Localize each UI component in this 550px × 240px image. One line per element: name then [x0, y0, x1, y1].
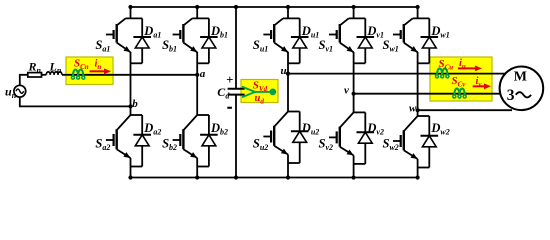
label S_Cn [74, 58, 89, 72]
wire phase u to motor [286, 72, 505, 76]
wire leg w midsection [417, 52, 419, 116]
label S_Cu [439, 58, 454, 72]
label D_u1 [301, 24, 319, 40]
wire leg w top-cell bottom bar [418, 62, 430, 64]
node b [128, 98, 138, 110]
svg-text:u: u [281, 65, 287, 77]
label + (dc link) [226, 73, 233, 87]
label i_n [95, 59, 102, 72]
igbt S_v1 [329, 18, 354, 52]
label S_v2 [319, 137, 334, 153]
wire leg v top bar [349, 17, 366, 19]
wire top dc bus [131, 6, 418, 8]
wire leg v midsection [353, 52, 355, 112]
label S_b1 [162, 38, 177, 54]
wire leg w bottom stub [416, 159, 420, 180]
igbt S_w2 [393, 116, 418, 159]
igbt S_u1 [263, 18, 288, 52]
label D_b1 [210, 24, 228, 40]
diode D_b1 [200, 18, 218, 63]
wire leg w top stub [416, 5, 420, 19]
label D_b2 [210, 121, 228, 137]
label S_u2 [253, 137, 268, 153]
sensor box S_Cn (current sensor highlight) [66, 57, 113, 85]
label u_n [5, 85, 17, 101]
svg-text:3: 3 [507, 87, 515, 104]
igbt S_b2 [173, 115, 198, 158]
wire leg a bottom-cell bottom bar [131, 166, 143, 168]
sensor box S_Vd (dc voltage sensor highlight) [241, 80, 278, 103]
label S_Vd [253, 80, 268, 94]
wire leg b bottom-cell bottom bar [197, 166, 209, 168]
wire capacitor bottom stub [234, 95, 238, 179]
igbt S_a1 [106, 18, 131, 52]
node a [195, 68, 206, 80]
arrow i_n [90, 68, 112, 74]
node u label [281, 65, 287, 77]
wire leg v bottom-cell top bar [354, 111, 366, 113]
wire leg v bottom-cell bottom bar [354, 163, 366, 165]
wire leg a bottom-cell top bar [131, 114, 143, 116]
wire leg b top bar [192, 17, 209, 19]
label D_v1 [366, 24, 384, 40]
wire leg v top-cell bottom bar [354, 62, 366, 64]
wire R_n to L_n [42, 74, 47, 76]
wire leg b top stub [195, 5, 199, 19]
diode D_w2 [421, 116, 439, 168]
diode D_a1 [133, 18, 151, 63]
svg-text:+: + [226, 73, 233, 87]
diode D_v2 [357, 112, 375, 163]
diode D_b2 [200, 115, 218, 167]
label D_v2 [366, 121, 384, 137]
wire leg u bottom-cell bottom bar [288, 162, 300, 164]
ac source u_n [14, 85, 26, 97]
label D_u2 [301, 121, 319, 137]
igbt S_a2 [106, 115, 131, 158]
label D_w2 [430, 121, 449, 137]
label u_d [255, 93, 265, 106]
label D_a2 [143, 121, 161, 137]
svg-text:b: b [132, 98, 138, 110]
arrow i_v [473, 83, 491, 89]
arrow i_u [458, 66, 482, 72]
wire L_n to node a [62, 74, 197, 76]
wire leg b bottom-cell top bar [197, 114, 209, 116]
wire source bottom lead [19, 97, 131, 106]
svg-text:M: M [514, 70, 527, 85]
diode D_u2 [291, 112, 309, 164]
node v label [344, 85, 349, 97]
wire leg w top bar [413, 17, 430, 19]
wire phase v to motor [352, 92, 501, 96]
label i_v [476, 76, 483, 89]
label - (dc link) [227, 107, 232, 109]
motor M 3~ [500, 67, 544, 111]
svg-text:a: a [200, 68, 206, 80]
diode D_v1 [357, 18, 375, 63]
label i_u [459, 58, 466, 71]
wire capacitor top stub [234, 5, 238, 88]
wire leg b bottom stub [195, 158, 199, 180]
wire leg w bottom-cell bottom bar [418, 167, 430, 169]
svg-text:w: w [409, 103, 417, 115]
resistor R_n [28, 73, 42, 77]
label R_n [28, 59, 42, 75]
wire leg w bottom-cell top bar [418, 115, 430, 117]
current sensor coil S_Cu [436, 68, 449, 77]
igbt S_w1 [393, 18, 418, 52]
wire leg v bottom stub [352, 155, 356, 179]
wire leg a top-cell bottom bar [131, 62, 143, 64]
label S_w1 [383, 38, 399, 54]
current sensor coil S_Cn [71, 70, 84, 79]
igbt S_v2 [329, 112, 354, 155]
wire phase w to motor [416, 108, 513, 112]
label D_w1 [430, 24, 449, 40]
wire leg a top stub [128, 5, 132, 19]
voltage sensor S_Vd probe [242, 87, 276, 98]
wire leg u top stub [286, 5, 290, 19]
sensor box S_Cu S_Cv (phase current sensors highlight) [430, 57, 492, 101]
wire leg v top stub [352, 5, 356, 19]
wire source top lead [19, 75, 28, 86]
wire leg u top-cell bottom bar [288, 62, 300, 64]
wire leg u bottom-cell top bar [288, 111, 300, 113]
diode D_u1 [291, 18, 309, 63]
label S_b2 [162, 137, 177, 153]
label S_a1 [95, 38, 110, 54]
wire leg u bottom stub [286, 155, 290, 180]
wire leg u midsection [287, 52, 289, 112]
label C_d [217, 85, 230, 101]
wire leg u top bar [283, 17, 300, 19]
igbt S_b1 [173, 18, 198, 52]
label S_Cv [452, 75, 467, 89]
inductor L_n [46, 72, 62, 75]
wire leg b midsection [196, 52, 198, 115]
igbt S_u2 [263, 112, 288, 155]
current sensor coil S_Cv [453, 89, 466, 98]
label S_v1 [319, 38, 334, 54]
capacitor C_d [228, 89, 245, 95]
wire leg a midsection [130, 52, 132, 115]
wire leg a top bar [126, 17, 143, 19]
svg-text:v: v [344, 85, 349, 97]
label D_a1 [143, 24, 161, 40]
label S_a2 [95, 137, 110, 153]
label L_n [49, 59, 62, 75]
wire bottom dc bus [131, 177, 419, 179]
label S_w2 [383, 137, 399, 153]
wire leg b top-cell bottom bar [197, 62, 209, 64]
label S_u1 [253, 38, 268, 54]
node w label [409, 103, 417, 115]
diode D_a2 [133, 115, 151, 167]
wire leg a bottom stub [128, 158, 132, 180]
diode D_w1 [421, 18, 439, 63]
